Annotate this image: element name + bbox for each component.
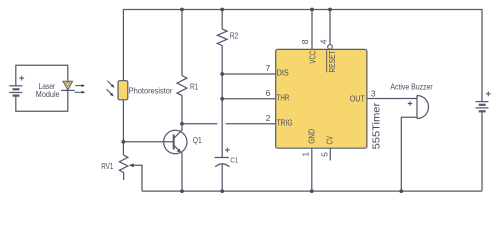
svg-text:Module: Module — [36, 90, 60, 99]
svg-text:4: 4 — [318, 39, 328, 44]
capacitor C1 — [215, 148, 230, 167]
node collector/TRIG junction — [180, 122, 184, 126]
wire TRIG right segment after hop over C1 column — [226, 123, 276, 125]
battery BT2 supply — [476, 91, 491, 111]
wire THR — [222, 98, 276, 100]
wire bottom rail — [142, 190, 482, 192]
node top rail / R2 — [220, 8, 224, 12]
wire photoresistor to RV1 — [122, 100, 124, 155]
wire top rail — [123, 10, 482, 102]
svg-text:2: 2 — [266, 113, 271, 123]
potentiometer RV1 — [119, 155, 127, 180]
light emission arrows — [75, 84, 86, 94]
node buzzer / bottom rail — [399, 189, 403, 193]
battery BT1 laser module — [9, 76, 24, 96]
svg-text:Photoresistor: Photoresistor — [129, 87, 173, 96]
node top rail / VCC — [310, 8, 314, 12]
svg-text:Active Buzzer: Active Buzzer — [390, 83, 433, 92]
svg-text:6: 6 — [266, 88, 271, 98]
wire GND pin 1 — [311, 148, 313, 191]
wire RESET pin 4 — [329, 10, 331, 45]
resistor R2 — [217, 10, 227, 158]
node C1 / bottom rail — [220, 189, 224, 193]
buzzer BZ1 body — [417, 96, 429, 119]
RV1 wiper arrow — [129, 163, 142, 191]
svg-text:R1: R1 — [190, 82, 199, 91]
svg-text:Q1: Q1 — [193, 136, 202, 145]
svg-text:C1: C1 — [230, 155, 238, 164]
svg-text:7: 7 — [266, 63, 271, 73]
svg-text:5: 5 — [319, 152, 329, 157]
svg-text:R2: R2 — [230, 32, 239, 41]
wire base of Q1 — [123, 141, 173, 143]
node base junction — [122, 140, 126, 144]
svg-text:TRIG: TRIG — [277, 119, 293, 128]
wire laser loop top — [16, 65, 68, 86]
svg-text:RV1: RV1 — [101, 162, 114, 171]
wire battery to bottom rail — [481, 111, 483, 191]
svg-text:THR: THR — [277, 94, 290, 103]
wire C1 to rail — [221, 164, 223, 191]
wire OUT pin 3 to buzzer — [367, 98, 417, 100]
node top rail / R1 — [180, 8, 184, 12]
wire VCC pin 8 — [311, 10, 313, 50]
photoresistor LDR1 — [118, 81, 128, 100]
light arrows onto photoresistor — [107, 81, 115, 97]
wire CV pin 5 stub — [329, 148, 331, 160]
RESET inversion bubble — [328, 45, 333, 50]
wire laser loop bottom — [16, 90, 68, 111]
node emitter / bottom rail — [180, 189, 184, 193]
svg-text:8: 8 — [300, 39, 310, 44]
svg-text:CV: CV — [326, 136, 335, 145]
svg-text:RESET: RESET — [328, 50, 337, 72]
transistor Q1 — [164, 124, 187, 191]
node THR junction — [220, 97, 224, 101]
svg-text:3: 3 — [371, 88, 376, 98]
node GND / bottom rail — [310, 189, 314, 193]
svg-text:GND: GND — [308, 129, 317, 144]
LED D1 laser diode — [61, 81, 75, 90]
svg-text:OUT: OUT — [350, 94, 365, 103]
wire TRIG left segment — [182, 123, 217, 125]
svg-text:VCC: VCC — [309, 50, 318, 63]
label buzzer plus — [408, 101, 412, 105]
resistor R1 — [177, 10, 187, 124]
svg-text:1: 1 — [301, 152, 311, 157]
svg-text:DIS: DIS — [277, 69, 289, 78]
wire buzzer negative lead — [401, 117, 417, 191]
wire DIS — [222, 73, 276, 75]
node top rail / RESET — [328, 8, 332, 12]
IC U1 555 timer body — [276, 49, 367, 148]
svg-text:555Timer: 555Timer — [372, 102, 383, 149]
node DIS junction — [220, 72, 224, 76]
